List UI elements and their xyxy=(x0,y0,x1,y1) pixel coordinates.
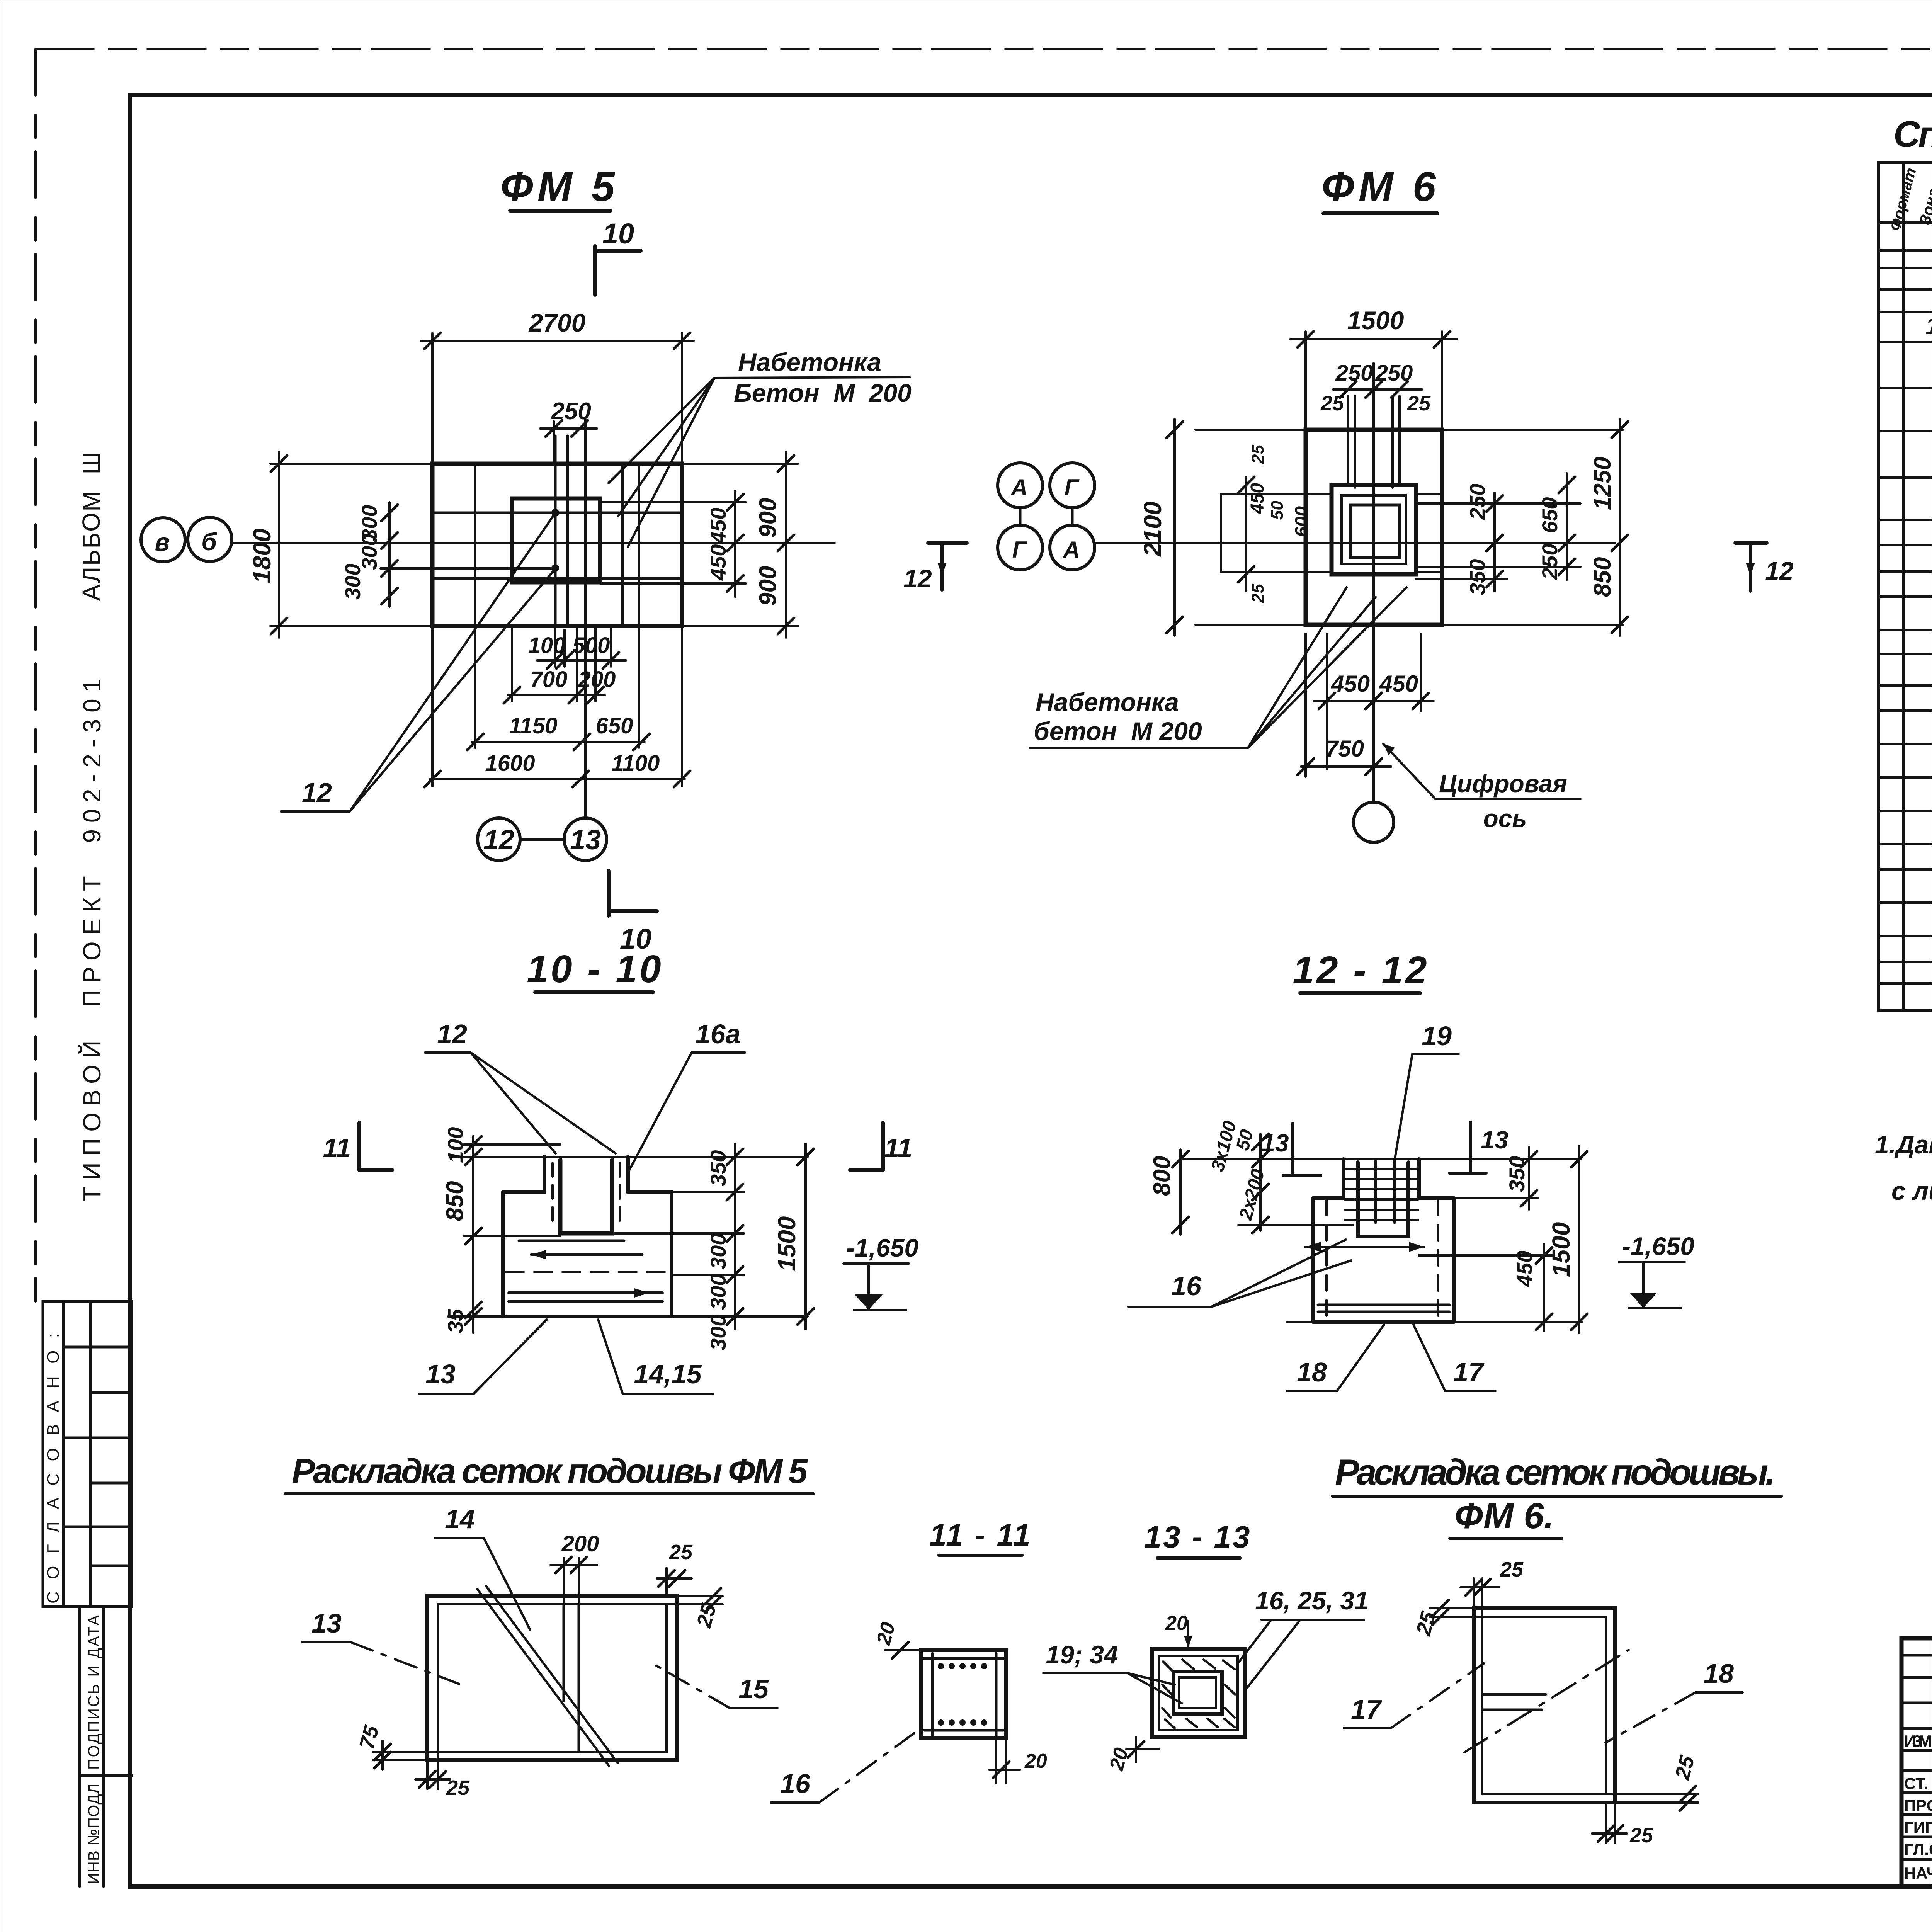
svg-text:Цифровая: Цифровая xyxy=(1439,770,1567,798)
svg-text:450: 450 xyxy=(1331,671,1370,697)
dim 2700 xyxy=(421,340,694,342)
svg-text:с листом КЖ-7.: с листом КЖ-7. xyxy=(1891,1177,1932,1205)
top surface line xyxy=(451,1156,808,1158)
middle verticals xyxy=(563,1604,565,1701)
right dims xyxy=(1528,1147,1530,1209)
right 12 mark xyxy=(1735,541,1767,545)
svg-text:-1,650: -1,650 xyxy=(846,1233,918,1262)
svg-text:13: 13 xyxy=(425,1359,456,1389)
left dim 1800 xyxy=(278,452,280,638)
svg-text:в: в xyxy=(155,528,170,556)
axis circles 12 13 bottom xyxy=(478,818,520,861)
svg-text:11: 11 xyxy=(323,1133,351,1163)
left rows xyxy=(1904,1732,1932,1882)
svg-text:300: 300 xyxy=(706,1315,730,1350)
cage grid xyxy=(1345,1161,1418,1223)
footing rect xyxy=(432,464,682,626)
svg-text:СТ. ИНЖ.: СТ. ИНЖ. xyxy=(1904,1774,1932,1793)
svg-text:ПРОВЕР.: ПРОВЕР. xyxy=(1904,1796,1932,1815)
svg-text:Набетонка: Набетонка xyxy=(1036,688,1179,716)
inner vertical lines xyxy=(474,464,476,626)
svg-text:ГИП: ГИП xyxy=(1904,1818,1932,1837)
axis circle bottom xyxy=(1354,802,1394,842)
left axis circles 2x2 xyxy=(998,463,1043,508)
svg-text:ФМ 6.: ФМ 6. xyxy=(1454,1495,1554,1536)
top surface xyxy=(1183,1158,1580,1160)
nabetonka strip xyxy=(1221,493,1332,495)
svg-text:ГЛ.СПЕЦ.: ГЛ.СПЕЦ. xyxy=(1904,1840,1932,1859)
embed dots pos12 xyxy=(551,509,559,517)
svg-text:800: 800 xyxy=(1149,1156,1175,1196)
svg-text:ПОДПИСЬ И ДАТА: ПОДПИСЬ И ДАТА xyxy=(85,1615,102,1770)
svg-text:350: 350 xyxy=(1465,559,1490,595)
svg-text:16: 16 xyxy=(1171,1271,1202,1301)
svg-text:500: 500 xyxy=(573,633,610,658)
svg-text:17: 17 xyxy=(1453,1357,1485,1387)
svg-text:200: 200 xyxy=(578,667,616,692)
shoulder xyxy=(503,1190,544,1194)
axes xyxy=(1095,542,1615,544)
svg-text:бетон М 200: бетон М 200 xyxy=(1034,717,1202,745)
stakan squares xyxy=(1332,485,1416,574)
svg-text:25: 25 xyxy=(1248,584,1267,603)
axes xyxy=(232,542,835,544)
svg-text:25: 25 xyxy=(1248,445,1267,464)
svg-text:ТИПОВОЙ ПРОЕКТ 902-2-301: ТИПОВОЙ ПРОЕКТ 902-2-301 xyxy=(78,676,106,1202)
right 900 chain xyxy=(785,452,787,638)
right chains xyxy=(1619,419,1621,636)
svg-text:13: 13 xyxy=(311,1608,342,1638)
diagonal double xyxy=(477,1589,609,1766)
svg-text:Г: Г xyxy=(1012,537,1028,563)
svg-text:17: 17 xyxy=(1351,1694,1382,1725)
Инв подпись блок xyxy=(80,1607,132,1886)
svg-text:16, 25, 31: 16, 25, 31 xyxy=(1255,1586,1369,1615)
svg-text:16а: 16а xyxy=(696,1019,741,1049)
svg-text:1600: 1600 xyxy=(485,751,535,776)
svg-text:25: 25 xyxy=(1629,1824,1653,1847)
svg-text:ФМ 5: ФМ 5 xyxy=(500,163,619,210)
column face double lines xyxy=(554,436,557,626)
svg-text:300: 300 xyxy=(706,1274,730,1310)
footing rect xyxy=(1306,430,1442,625)
svg-text:350: 350 xyxy=(1505,1156,1529,1192)
svg-text:1.Данныи лист см.совместно: 1.Данныи лист см.совместно xyxy=(1875,1130,1932,1159)
column outline above xyxy=(1347,396,1349,485)
inner dashed verticals xyxy=(1325,1200,1328,1320)
left dim chain xyxy=(472,1136,474,1333)
svg-text:19; 34: 19; 34 xyxy=(1046,1640,1118,1669)
svg-text:11 - 11: 11 - 11 xyxy=(929,1518,1032,1552)
svg-text:Набетонка: Набетонка xyxy=(738,348,881,376)
bottom dim rows xyxy=(537,659,626,662)
svg-text:АЛЬБОМ Ш: АЛЬБОМ Ш xyxy=(77,450,105,601)
300 chain xyxy=(388,502,391,607)
svg-text:25: 25 xyxy=(1407,392,1431,415)
svg-text:100: 100 xyxy=(528,633,566,658)
mid arrow line xyxy=(1305,1246,1424,1248)
svg-text:2x200: 2x200 xyxy=(1235,1167,1269,1223)
stakan square xyxy=(512,498,600,582)
svg-text:15: 15 xyxy=(738,1674,769,1704)
bottom mesh xyxy=(1318,1304,1449,1306)
stakan walls xyxy=(1342,1159,1345,1198)
svg-text:900: 900 xyxy=(755,498,781,538)
right 450 chain xyxy=(734,491,736,597)
svg-text:1500: 1500 xyxy=(773,1216,801,1271)
svg-text:11: 11 xyxy=(884,1133,913,1163)
svg-text:16: 16 xyxy=(780,1769,811,1799)
svg-text:450: 450 xyxy=(706,508,730,544)
svg-text:2100: 2100 xyxy=(1139,502,1167,557)
svg-text:А: А xyxy=(1010,474,1027,500)
svg-text:1100: 1100 xyxy=(612,751,660,776)
svg-text:б: б xyxy=(201,528,218,556)
svg-text:25: 25 xyxy=(1500,1558,1524,1581)
svg-text:450: 450 xyxy=(706,544,730,581)
hatch between borders xyxy=(1162,1660,1235,1728)
ext top bottom lines xyxy=(1196,429,1623,431)
dim 1500 xyxy=(1291,338,1457,340)
svg-text:1150: 1150 xyxy=(509,713,558,738)
svg-text:75: 75 xyxy=(355,1723,384,1752)
svg-text:1500: 1500 xyxy=(1347,306,1404,335)
svg-text:ИЗМ: ИЗМ xyxy=(1904,1732,1932,1750)
svg-text:14,15: 14,15 xyxy=(634,1359,702,1389)
svg-text:25: 25 xyxy=(1670,1753,1699,1782)
svg-text:300: 300 xyxy=(706,1233,730,1269)
svg-text:ИНВ №ПОДЛ: ИНВ №ПОДЛ xyxy=(85,1784,102,1884)
section mark 10 bottom xyxy=(607,871,611,916)
bottom dims 450 450 and 750 xyxy=(1314,700,1434,702)
svg-text:700: 700 xyxy=(530,667,568,692)
svg-text:850: 850 xyxy=(442,1181,468,1221)
svg-text:25: 25 xyxy=(1320,392,1344,415)
svg-text:-1,650: -1,650 xyxy=(1622,1232,1694,1260)
svg-text:Г: Г xyxy=(1065,474,1080,500)
block xyxy=(1311,1198,1315,1322)
svg-text:Зона: Зона xyxy=(1916,187,1932,227)
pedestal walls xyxy=(543,1157,546,1192)
svg-text:20: 20 xyxy=(1165,1612,1188,1634)
svg-text:200: 200 xyxy=(561,1531,599,1556)
svg-text:НАЧ. ОТД: НАЧ. ОТД xyxy=(1904,1864,1932,1882)
svg-text:50: 50 xyxy=(1268,501,1287,520)
svg-text:13: 13 xyxy=(570,825,601,855)
svg-text:350: 350 xyxy=(706,1150,730,1186)
svg-text:20: 20 xyxy=(872,1620,900,1648)
left dim 2100 xyxy=(1173,419,1176,636)
svg-text:12: 12 xyxy=(903,564,932,593)
svg-text:12: 12 xyxy=(302,777,332,808)
svg-text:900: 900 xyxy=(755,566,781,606)
nabetonka strip lines xyxy=(432,512,682,514)
note xyxy=(1875,1130,1932,1205)
inner mesh lines xyxy=(519,1240,624,1242)
svg-text:13 - 13: 13 - 13 xyxy=(1144,1520,1251,1554)
squares xyxy=(1152,1649,1245,1737)
svg-text:20: 20 xyxy=(1024,1750,1047,1772)
svg-text:750: 750 xyxy=(1325,736,1364,762)
specification table grid xyxy=(1878,162,1932,1010)
svg-text:450: 450 xyxy=(1247,483,1268,514)
svg-text:Раскладка сеток подошвы ФМ 5: Раскладка сеток подошвы ФМ 5 xyxy=(292,1452,808,1491)
svg-text:18: 18 xyxy=(1704,1658,1734,1689)
diagonal dash-dot xyxy=(1464,1650,1629,1752)
svg-text:16а: 16а xyxy=(1925,313,1932,340)
svg-text:14: 14 xyxy=(445,1504,475,1534)
rect double border xyxy=(1474,1608,1615,1803)
footing block xyxy=(501,1192,505,1316)
svg-text:18: 18 xyxy=(1297,1357,1327,1387)
svg-text:19: 19 xyxy=(1422,1021,1452,1051)
section mark 10 top xyxy=(593,246,597,295)
svg-text:13: 13 xyxy=(1481,1126,1508,1154)
svg-text:25: 25 xyxy=(669,1541,693,1564)
rebar dots xyxy=(938,1663,987,1726)
svg-text:10 - 10: 10 - 10 xyxy=(527,947,663,991)
square with bars xyxy=(921,1650,1006,1738)
svg-text:35: 35 xyxy=(443,1309,468,1333)
svg-text:250: 250 xyxy=(1465,484,1490,520)
title block (stamp) xyxy=(1901,1638,1932,1886)
right dim chain xyxy=(734,1144,736,1329)
svg-text:600: 600 xyxy=(1292,506,1312,537)
extension verticals below footing xyxy=(432,626,682,786)
svg-text:12: 12 xyxy=(1765,556,1794,585)
left 12 mark xyxy=(928,541,967,545)
left dims xyxy=(1179,1150,1182,1235)
svg-text:10: 10 xyxy=(602,218,634,250)
svg-text:450: 450 xyxy=(1379,671,1418,697)
Согласовано table xyxy=(43,1301,132,1607)
svg-text:250: 250 xyxy=(1537,544,1562,580)
svg-text:1800: 1800 xyxy=(248,529,276,583)
mesh rect double border xyxy=(427,1596,677,1760)
svg-text:А: А xyxy=(1062,537,1080,563)
svg-text:1250: 1250 xyxy=(1589,457,1616,510)
1500 chain xyxy=(804,1144,807,1329)
svg-text:1500: 1500 xyxy=(1547,1222,1575,1277)
svg-text:Спецификация для монолитных: Спецификация для монолитных элементов. xyxy=(1893,114,1932,155)
table section ФМ 5 rows xyxy=(1925,223,1932,597)
svg-text:2700: 2700 xyxy=(528,308,586,337)
inner horizontals xyxy=(1482,1693,1546,1696)
svg-text:Бетон М 200: Бетон М 200 xyxy=(734,379,912,407)
shoulder xyxy=(1313,1196,1344,1200)
table header labels xyxy=(1886,166,1932,233)
svg-text:12: 12 xyxy=(483,825,514,855)
svg-text:СОГЛАСОВАНО:: СОГЛАСОВАНО: xyxy=(44,1333,63,1604)
svg-text:Раскладка сеток подошвы.: Раскладка сеток подошвы. xyxy=(1335,1452,1776,1492)
stakan cavity U xyxy=(560,1160,612,1233)
svg-text:850: 850 xyxy=(1589,557,1616,597)
svg-text:300: 300 xyxy=(340,564,365,600)
svg-text:ось: ось xyxy=(1483,804,1527,832)
svg-text:650: 650 xyxy=(596,713,633,738)
axis circles left xyxy=(141,518,185,562)
svg-text:12 - 12: 12 - 12 xyxy=(1293,949,1429,992)
svg-text:ФМ 6: ФМ 6 xyxy=(1321,163,1440,210)
svg-text:12: 12 xyxy=(437,1019,467,1049)
